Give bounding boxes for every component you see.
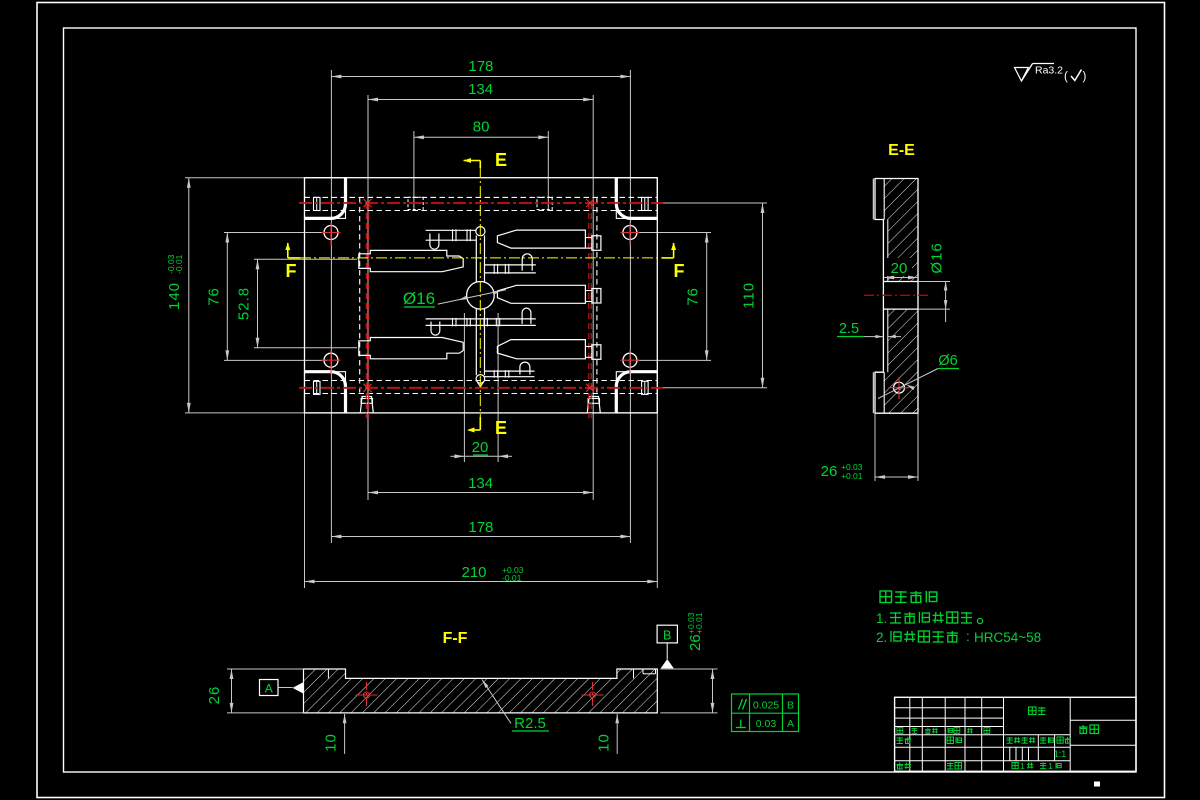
svg-text:1.: 1.: [876, 611, 887, 626]
svg-text:+0.01: +0.01: [841, 471, 863, 481]
svg-text:Ø16: Ø16: [403, 289, 435, 308]
svg-text:26: 26: [206, 686, 223, 705]
svg-text:): ): [1083, 71, 1087, 83]
svg-text:10: 10: [323, 733, 340, 752]
svg-text:1:1: 1:1: [1054, 749, 1067, 759]
svg-text:140: 140: [166, 282, 183, 310]
svg-text:1: 1: [1020, 761, 1025, 771]
svg-text:26: 26: [687, 634, 704, 651]
svg-text:E: E: [495, 150, 507, 170]
svg-text:20: 20: [891, 260, 908, 277]
svg-text:HRC54~58: HRC54~58: [974, 630, 1041, 645]
svg-text:76: 76: [205, 287, 222, 306]
svg-text:110: 110: [741, 282, 758, 309]
svg-text:134: 134: [468, 81, 493, 98]
svg-text:134: 134: [468, 475, 493, 492]
svg-text:26: 26: [821, 463, 838, 480]
svg-text:178: 178: [468, 519, 493, 536]
svg-text:+0.01: +0.01: [694, 612, 704, 634]
svg-text:F: F: [674, 261, 685, 281]
svg-text:Ø16: Ø16: [929, 242, 946, 273]
svg-text:A: A: [265, 682, 273, 696]
svg-text:(: (: [1064, 71, 1068, 83]
svg-text:1: 1: [1048, 761, 1053, 771]
svg-text:E: E: [495, 418, 507, 438]
svg-text:E-E: E-E: [888, 142, 915, 159]
svg-text:80: 80: [473, 119, 490, 136]
svg-text:B: B: [787, 700, 794, 712]
svg-text:2.: 2.: [876, 630, 887, 645]
svg-text:-0.01: -0.01: [174, 254, 184, 274]
svg-text:R2.5: R2.5: [514, 715, 546, 732]
svg-text:-0.01: -0.01: [502, 573, 522, 583]
svg-text:A: A: [787, 718, 794, 730]
svg-text:Ø6: Ø6: [938, 353, 957, 369]
svg-text:0.03: 0.03: [756, 718, 777, 730]
svg-text:2.5: 2.5: [839, 321, 859, 337]
svg-text::: :: [966, 629, 970, 644]
svg-text:0.025: 0.025: [753, 700, 779, 712]
svg-text:B: B: [663, 629, 671, 643]
svg-text:178: 178: [468, 58, 493, 75]
svg-text:20: 20: [472, 439, 489, 456]
svg-text:F: F: [286, 261, 297, 281]
svg-text:Ra3.2: Ra3.2: [1035, 65, 1063, 77]
svg-text:210: 210: [461, 564, 486, 581]
svg-text:76: 76: [685, 287, 702, 306]
svg-text:10: 10: [596, 733, 613, 752]
svg-text:F-F: F-F: [443, 630, 468, 647]
svg-text:52.8: 52.8: [236, 287, 253, 320]
